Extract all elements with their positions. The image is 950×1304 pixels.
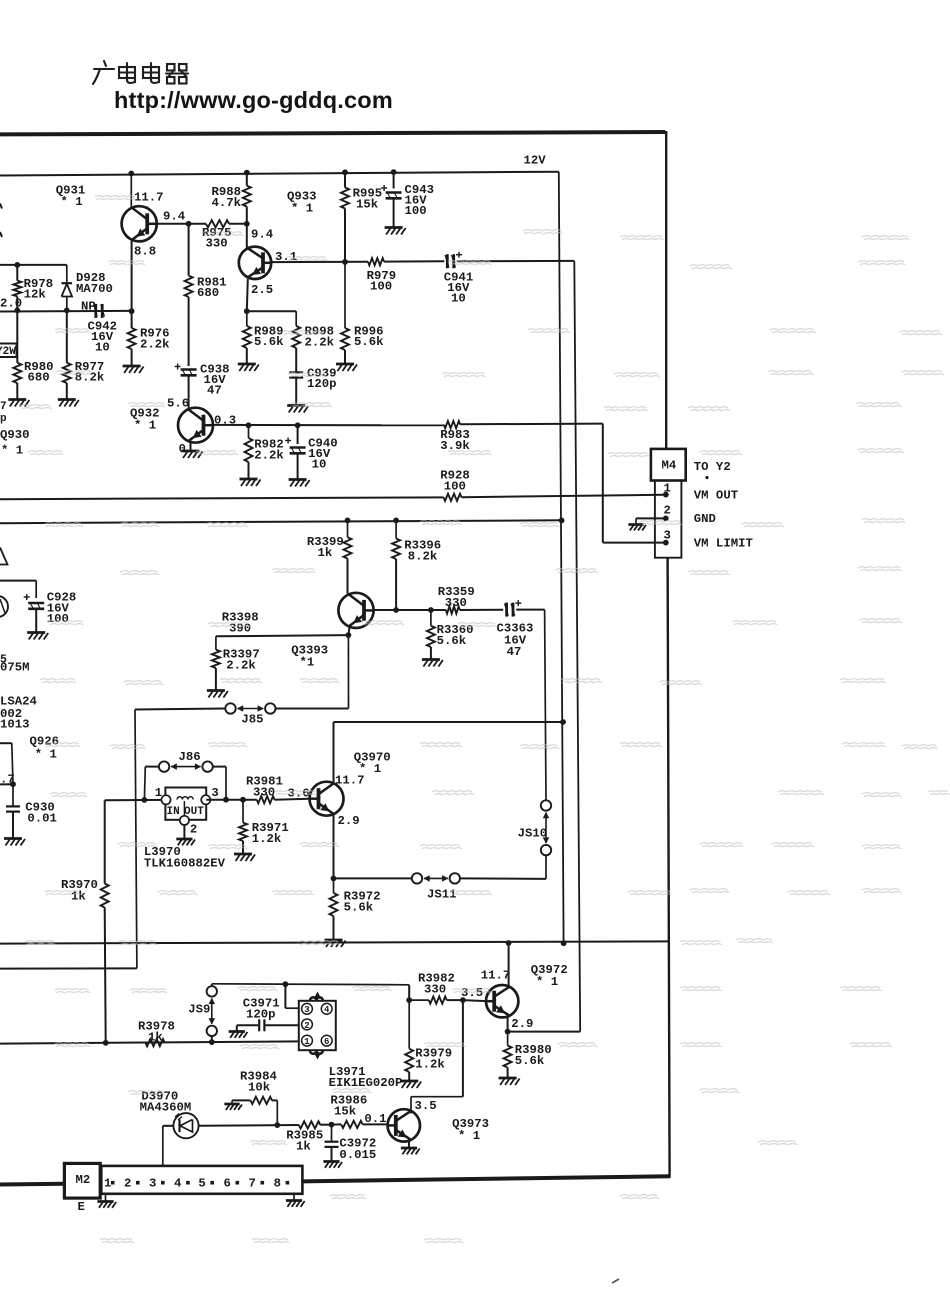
wire D3970 left leg [163,1126,174,1166]
edge tick 2 [0,232,2,237]
wire R3984 left to ground [232,1100,251,1104]
svg-text:MA4360M: MA4360M [140,1100,192,1114]
wire R982 to ground [248,462,250,479]
label R3978 [138,1019,175,1044]
resistor R976 [128,328,136,349]
ground R989 [238,364,259,371]
svg-text:1: 1 [155,786,162,800]
wire Q3972 collector [508,943,510,986]
svg-text:* 1: * 1 [61,195,83,209]
wire R3970 top corner [104,800,106,883]
wire C3972 to ground [331,1147,333,1162]
connector M2 box [64,1163,100,1198]
svg-text:120p: 120p [246,1008,276,1022]
svg-text:*1: *1 [300,656,315,670]
svg-text:* 1: * 1 [35,747,57,761]
svg-text:0.015: 0.015 [339,1148,376,1162]
wire JS11 to JS10 [460,856,546,879]
wire R3981 to Q3970 base [275,799,311,800]
stray speck [612,1279,619,1283]
svg-text:2.5: 2.5 [251,283,273,297]
wire C941 to rail B corner [457,260,575,262]
ground C939 [287,406,308,413]
pin 2 label [664,503,671,517]
wire C940 top [297,425,299,444]
ground R3984 [224,1104,242,1110]
resistor R3971 [239,800,247,841]
wire rail B bottom corner [508,1031,581,1033]
pin 2 (L3971) [302,1019,313,1031]
label C930 [25,800,57,825]
label 11.7 [134,191,164,205]
svg-text:0.01: 0.01 [27,811,57,825]
svg-text:100: 100 [444,479,466,493]
resistor R983 [444,421,460,428]
label R981 [197,275,227,300]
resistor R3397 [212,636,220,668]
pin label 1 (L3970) [155,786,162,800]
ground C928 [27,633,48,640]
svg-text:11.7: 11.7 [481,968,511,982]
wire R3360 to ground [430,647,432,660]
resistor R978 [13,281,21,297]
svg-text:47: 47 [207,384,222,398]
label 3.6 [288,786,310,800]
wire R3982 to node [447,997,466,1003]
label 3.5 (Q3973) [415,1099,437,1113]
svg-text:4: 4 [324,1005,330,1015]
wire JS9 bottom leg [211,1036,213,1042]
resistor R975 [206,220,229,227]
wire R996 to ground [344,350,346,364]
ground C930 [4,839,25,846]
transistor Q3973 [388,1109,420,1141]
resistor R3360 [427,610,435,647]
symbol partial circle component (cut) [0,596,8,617]
svg-text:http://www.go-gddq.com: http://www.go-gddq.com [114,87,393,113]
connector Y2W box (cut at edge) [0,344,17,359]
transistor Q932 [178,408,213,443]
label VM OUT [694,488,739,502]
ground Q3973 [401,1148,420,1154]
svg-text:680: 680 [197,286,219,300]
wire node to Q3972 base [463,1000,486,1001]
resistor R3984 [251,1097,273,1104]
transistor Q933 [239,247,271,279]
svg-text:2.0: 2.0 [0,297,22,311]
label C940 [308,436,338,471]
label 0.3 [214,414,236,428]
label R982 [254,437,284,462]
ground C3971 [229,1032,248,1038]
wire to JS11 [334,877,412,879]
label R3398 [222,610,259,635]
label NP [81,300,96,314]
label 002 (cut) [0,707,22,721]
svg-text:1.2k: 1.2k [415,1058,445,1072]
label C938 [200,363,230,398]
capacitor C938 [175,364,197,377]
wire Q926 corner [0,743,16,787]
jumper JS9 [207,986,217,1036]
label R983 [440,428,470,453]
wire R978 top stub [16,265,18,281]
label R3359 [438,585,475,610]
svg-text:1k: 1k [318,546,333,560]
wire rail B vertical (C941 feedback) [574,261,580,1032]
svg-text:3: 3 [149,1177,156,1191]
svg-text:3: 3 [211,786,218,800]
resistor R998 [292,311,300,348]
label Q932 [130,407,160,433]
label R988 [212,185,242,210]
svg-text:1k: 1k [148,1031,163,1045]
wire R995 top [342,169,348,187]
svg-text:M4: M4 [662,459,677,473]
ground L3970 [176,839,195,845]
wire R975 to R988 node [229,221,250,227]
resistor R3986 [341,1121,362,1128]
pin 4 (L3971) [321,1003,332,1015]
wire R3979 to ground [408,1072,410,1081]
svg-text:5.6k: 5.6k [354,335,384,349]
wire R976 stub top [131,311,133,328]
wire line y311 (NP cap line) [0,310,132,313]
label Q3973 [452,1117,489,1143]
label 3.1 [275,250,297,264]
label R995 [353,187,383,212]
label C3971 [243,996,280,1021]
svg-text:5.6: 5.6 [167,397,189,411]
wire R3970 bottom [103,908,109,1046]
wire drop to line y968 [0,967,137,969]
label 075M (cut) [0,661,30,675]
label R976 [140,327,170,352]
transistor Q3972 [486,985,518,1017]
wire VM OUT line right [462,495,664,497]
pins 1-8 (M2) [104,1177,289,1191]
label L3970 [144,845,226,871]
ground R3397 [207,691,228,698]
label D3970 [140,1089,192,1114]
svg-text:6: 6 [224,1177,231,1191]
scan smudges [20,196,950,1243]
label LSA24 (cut) [0,695,38,709]
resistor R989 [243,311,251,348]
wire VM LIMIT to pin3 [603,542,663,544]
capacitor C3972 [325,1125,339,1147]
ground R3971 [234,854,255,861]
svg-text:5.6k: 5.6k [344,901,374,915]
label Q933 [287,190,317,216]
ground M2 left [97,1202,116,1208]
label C928 [47,591,77,626]
svg-text:5.6k: 5.6k [437,634,467,648]
label GND [694,512,716,526]
label M2 [76,1173,91,1187]
wire C3971 left [237,1024,258,1026]
svg-text:VM LIMIT: VM LIMIT [694,536,754,550]
label R979 [367,269,397,294]
ground R3980 [499,1078,520,1085]
label R3979 [415,1046,452,1071]
label Q3393 [291,643,328,669]
label 7 (cut) [0,401,7,413]
svg-text:TO Y2: TO Y2 [694,460,731,474]
svg-text:p: p [0,413,7,425]
label 8.8 [134,245,156,259]
wire R3398 line [216,632,351,638]
wire C940 to ground [297,454,299,480]
label 2.9 (Q3972) [511,1017,533,1031]
wire J86 left leg [142,767,159,803]
wire R3396 to collector line [393,559,399,613]
wire Q932 collector line [213,422,444,428]
wire Q3970 collector [333,722,335,783]
label 0 (Q932 emitter) [179,442,186,456]
svg-text:11.7: 11.7 [134,191,164,205]
svg-text:10: 10 [95,341,110,355]
label 5.6 (Q932 base) [167,397,189,411]
svg-text:2.2k: 2.2k [305,335,335,349]
connector M4 box [651,449,686,481]
label R3360 [437,623,474,648]
diode D928 [62,265,73,313]
wire Q933 emitter [244,279,250,314]
svg-text:* 1: * 1 [536,975,558,989]
label .7 (cut) [0,772,15,786]
wire C938 to Q932 [188,376,190,408]
resistor R979 [368,258,384,265]
svg-text:330: 330 [445,596,467,610]
label R928 [440,468,470,493]
svg-text:2: 2 [304,1021,309,1031]
svg-text:10: 10 [312,458,327,472]
label JS11 [427,887,457,901]
ground R982 [240,479,261,486]
wire R3986 to base [363,1123,388,1125]
svg-text:330: 330 [253,786,275,800]
svg-text:2.9: 2.9 [511,1017,533,1031]
connector M4 body [655,481,682,558]
label R977 [75,360,105,385]
wire Q3393 emitter [348,628,349,709]
wire R3984 right corner [272,1100,277,1125]
capacitor C940 [285,438,306,455]
ground C3972 [323,1162,342,1168]
wire L3970 input line [105,799,166,801]
pin 3 (L3971) [302,1003,313,1015]
symbol partial triangle (cut) [0,548,8,565]
ground R996 [336,364,357,371]
label 9.4 (Q931) [163,210,186,224]
label 5 (cut) [0,653,7,666]
ground R3979 [400,1081,421,1088]
label R980 [24,360,54,385]
transistor Q3393 [338,593,373,628]
wire JS9 top leg [212,981,409,987]
wire JS9 line corner down [406,985,412,1003]
wire R980 to ground [16,383,18,400]
label VM LIMIT [694,536,754,550]
label JS10 [518,827,548,841]
wire R3399 to Q3393 [347,559,349,594]
wire R3985 to C3972 node [320,1124,331,1126]
wire R988 bottom to Q933 base [246,207,248,248]
wire Q3973 emitter to ground [408,1141,410,1149]
svg-text:1k: 1k [296,1140,311,1154]
svg-text:1.2k: 1.2k [252,832,282,846]
svg-text:2.2k: 2.2k [226,659,256,673]
label R996 [354,324,384,349]
wire C930 to ground [12,812,14,839]
svg-text:11.7: 11.7 [335,773,365,787]
wire C928 to ground [35,610,37,633]
svg-text:8.2k: 8.2k [75,370,105,384]
resistor R3979 [405,1000,413,1072]
svg-text:8: 8 [274,1177,281,1191]
svg-text:5: 5 [198,1177,205,1191]
wire Q931 base to node [157,223,206,225]
header Chinese site name 广电电器 (drawn strokes) [93,61,188,84]
wire C943 to ground [393,199,395,228]
svg-text:9.4: 9.4 [163,210,186,224]
ground R980 [8,400,29,407]
wire Q931 emitter [129,241,135,314]
svg-text:OUT: OUT [184,806,204,818]
svg-text:680: 680 [28,370,50,384]
svg-text:5.6k: 5.6k [515,1054,545,1068]
wire R3972 to ground [333,916,335,940]
label D928 [76,271,113,296]
wire R976 to ground [131,349,133,366]
label 2.9 (Q3970) [338,814,360,828]
resistor R3985 [299,1121,321,1128]
wire R977 to ground [66,383,68,400]
wire C943 top [391,169,397,188]
label C3363 [497,621,534,659]
svg-text:J86: J86 [179,750,201,764]
svg-text:10k: 10k [248,1081,271,1095]
resistor R980 [13,363,21,383]
svg-text:7: 7 [249,1177,256,1191]
wire C3971 to L3971 pin2 [266,1024,299,1026]
label R998 [305,324,335,349]
label Q931 [56,184,86,210]
label 3.5 (Q3972) [461,986,483,1000]
svg-text:47: 47 [507,645,522,659]
label R3984 [240,1069,278,1094]
wire L3970 pin2 to ground [183,825,185,839]
resistor R3359 [446,606,460,613]
schematic right border lower [668,558,670,1178]
resistor R3978 [146,1039,165,1046]
svg-text:100: 100 [370,280,392,294]
label 1013 (cut) [0,718,30,732]
label C943 [405,183,435,218]
resistor R982 [245,425,253,462]
connector M2 pin strip [101,1166,302,1194]
svg-text:2.9: 2.9 [338,814,360,828]
capacitor C3363 (NP) [505,600,522,617]
label JS9 [188,1003,210,1017]
wire L3970 out line [206,797,257,803]
wire M2 pin8 ground stub [293,1194,295,1201]
capacitor C939 [289,372,303,377]
svg-text:330: 330 [424,983,446,997]
label R3399 [307,535,344,560]
svg-text:2: 2 [190,822,197,836]
wire Q931 collector [128,171,134,207]
svg-text:1: 1 [104,1177,111,1191]
svg-text:10: 10 [451,292,466,306]
label E [78,1200,85,1214]
svg-text:2.2k: 2.2k [140,337,170,351]
wire rail A vertical (12V drop) [559,172,564,944]
pin 6 (L3971) [321,1035,332,1047]
ground R3360 [422,660,443,667]
wire R980 link [16,311,18,363]
edge tick 1 [0,204,2,209]
capacitor C930 [6,784,20,811]
resistor R3972 [330,878,338,916]
label 2.5 [251,283,273,297]
wire R983 to VM LIMIT drop [460,423,603,426]
wire C930 feed [0,783,13,785]
ground R976 [123,366,144,373]
svg-text:2: 2 [664,503,671,517]
wire R3397 to ground [215,668,217,691]
label TO Y2 [694,460,731,479]
wire R978 bottom [14,296,20,313]
label 9.4 (Q933) [251,228,274,242]
svg-text:4.7k: 4.7k [212,196,242,210]
resistor R988 [243,186,251,207]
label Q3970 [354,750,391,776]
pin label 2 (L3970) [190,822,197,836]
wire J86 right leg [213,767,229,803]
pin 3 label [664,529,671,543]
label R975 [202,226,232,251]
svg-text:3: 3 [304,1005,309,1015]
label R3980 [515,1043,552,1068]
wire 3.5 node drop [411,1000,463,1113]
svg-text:JS9: JS9 [188,1003,210,1017]
wire R3978 line [0,1039,299,1045]
label R3985 [286,1128,323,1153]
wire VM OUT line left [0,497,444,499]
resistor R3981 [257,796,275,803]
ground C943 [385,228,406,235]
label R3971 [252,821,289,846]
wire Q3393 collector line [374,607,446,613]
wire drop to L3971 pin3 [285,984,298,1008]
resistor R3399 [344,518,352,559]
wire Q3972 emitter [505,1017,511,1035]
schematic top border [0,132,665,134]
svg-text:M2: M2 [76,1173,91,1187]
schematic right border upper [665,131,667,449]
svg-text:1: 1 [304,1037,310,1047]
wire R3359 to C3363 [460,609,503,611]
wire R3971 to ground [242,841,244,854]
svg-text:9.4: 9.4 [251,228,274,242]
label R3982 [418,971,455,996]
wire R977 link [66,311,68,363]
svg-text:JS10: JS10 [518,827,548,841]
label R3396 [404,538,441,563]
resistor R3970 [101,884,109,908]
